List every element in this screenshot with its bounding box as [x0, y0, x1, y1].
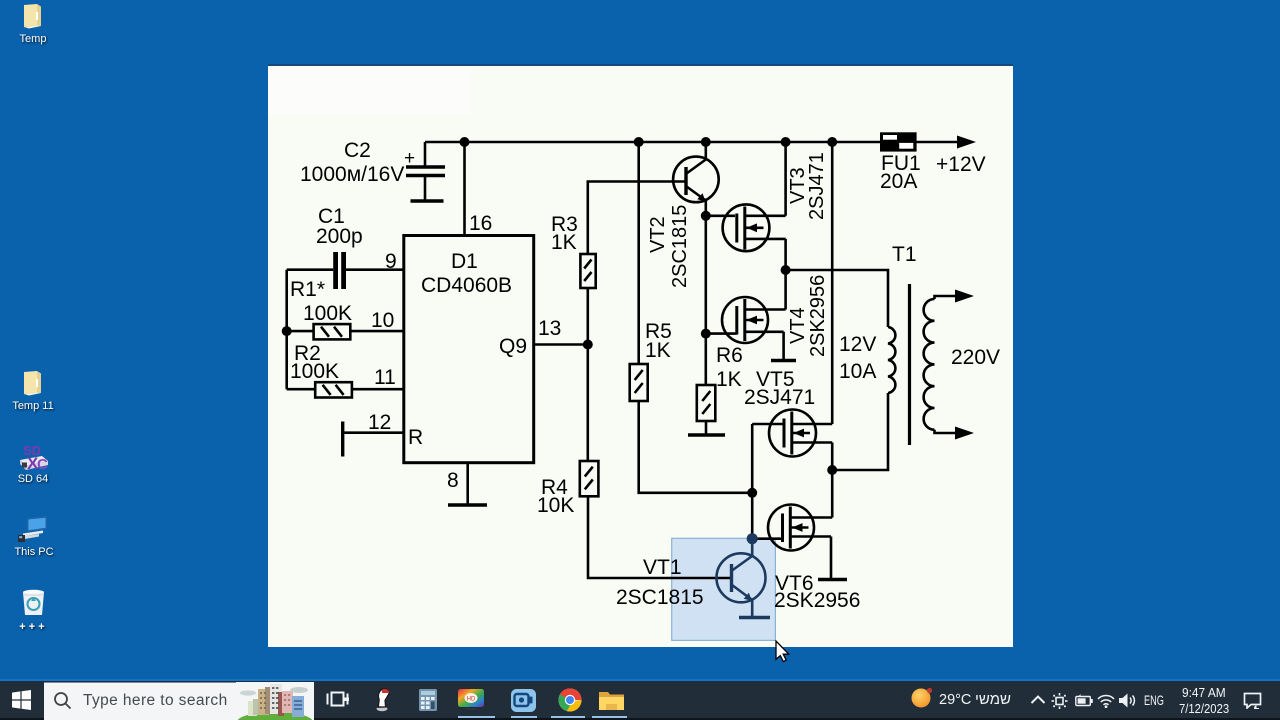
capacitor C1	[333, 252, 346, 289]
task view icon	[326, 689, 349, 711]
search box	[44, 682, 314, 720]
svg-text:D1: D1	[451, 250, 478, 273]
start button	[12, 690, 31, 710]
svg-text:T1: T1	[892, 243, 917, 266]
wire pin 9	[287, 268, 404, 271]
svg-text:VT2: VT2	[647, 216, 669, 253]
svg-text:8: 8	[447, 469, 459, 492]
wire VT2 emitter to VT3 gate	[706, 215, 735, 218]
arrowhead +12V	[957, 136, 976, 149]
resistor R2	[315, 382, 352, 397]
svg-text:R1*: R1*	[290, 278, 325, 301]
svg-text:13: 13	[538, 317, 561, 340]
svg-text:10A: 10A	[839, 360, 876, 383]
svg-text:1000м/16V: 1000м/16V	[300, 163, 404, 186]
svg-text:Q9: Q9	[499, 335, 527, 358]
wire VT5 gate vertical	[751, 424, 754, 539]
wire pin 12	[343, 431, 404, 434]
svg-text:200p: 200p	[316, 225, 363, 248]
fuse FU1	[880, 132, 917, 151]
svg-text:100K: 100K	[290, 360, 339, 383]
ground pin 8	[448, 503, 487, 506]
desktop icon Recycle Bin	[21, 589, 46, 616]
search box cityscape	[236, 682, 314, 720]
wire secondary top	[935, 296, 959, 299]
weather hebrew	[975, 691, 1011, 708]
svg-text:16: 16	[469, 212, 492, 235]
transistor VT4 2SK2956	[722, 270, 796, 361]
speaker icon	[1119, 693, 1139, 708]
svg-text:C: C	[37, 456, 48, 472]
svg-text:1K: 1K	[716, 368, 742, 391]
svg-text:2SJ471: 2SJ471	[806, 152, 828, 220]
svg-text:11: 11	[374, 366, 396, 389]
transistor VT2 2SC1815	[673, 142, 719, 216]
svg-text:1K: 1K	[645, 339, 671, 362]
desktop icon SD 64	[18, 440, 50, 472]
transistor VT6 2SK2956	[752, 470, 847, 580]
transistor VT1 2SC1815 (inside selection)	[717, 539, 771, 618]
wire secondary bottom	[935, 430, 959, 433]
clock	[1182, 685, 1226, 700]
electrode bar pin 12	[341, 422, 344, 457]
capacitor C2	[406, 142, 445, 201]
running app underlines	[458, 716, 496, 718]
selection rectangle (highlight)	[672, 538, 776, 640]
taskbar	[0, 679, 1280, 681]
svg-text:12V: 12V	[839, 333, 876, 356]
wire VT4 gate	[706, 332, 737, 335]
svg-text:HD: HD	[467, 696, 476, 702]
wire R4 branch	[588, 345, 732, 579]
weather sun	[911, 687, 933, 709]
calculator icon	[417, 689, 439, 711]
wire top +12V rail	[425, 141, 958, 144]
svg-text:+: +	[404, 148, 415, 169]
node dots	[460, 137, 470, 147]
wire rail to VT5 source	[831, 142, 834, 424]
svg-text:VT4: VT4	[787, 307, 809, 344]
svg-text:R: R	[408, 426, 423, 449]
desktop icon This PC	[17, 516, 49, 544]
svg-text:2SC1815: 2SC1815	[616, 586, 704, 609]
wire left vertical	[285, 270, 288, 390]
pointer/glove icon	[372, 687, 396, 712]
resistor R4	[580, 461, 599, 496]
media player icon	[458, 689, 485, 711]
folder icon taskbar	[598, 689, 625, 711]
transformer T1 primary coil	[888, 327, 895, 393]
wire pin 10	[287, 330, 404, 333]
desktop icon Temp	[23, 4, 42, 29]
action center icon	[1243, 692, 1262, 709]
blue recorder icon	[511, 689, 536, 712]
svg-text:10K: 10K	[537, 494, 574, 517]
mouse cursor	[774, 640, 790, 663]
svg-text:+12V: +12V	[936, 153, 986, 176]
svg-text:2SK2956: 2SK2956	[807, 275, 829, 357]
svg-text:C2: C2	[344, 139, 371, 162]
wire VT5 drain node to transformer primary bottom	[832, 393, 888, 470]
svg-text:1K: 1K	[551, 231, 577, 254]
svg-text:CD4060B: CD4060B	[421, 274, 512, 297]
svg-text:VT1: VT1	[643, 556, 682, 579]
wire R6 to ground	[705, 421, 708, 434]
svg-text:2SK2956: 2SK2956	[774, 589, 860, 612]
svg-text:2SC1815: 2SC1815	[669, 205, 691, 288]
ground R6	[688, 433, 725, 436]
battery icon	[1075, 694, 1093, 707]
resistor R1	[314, 324, 351, 339]
brightness icon	[1051, 693, 1068, 709]
resistor R6	[697, 385, 716, 421]
wire pin16 drop	[463, 142, 466, 236]
weather temp	[939, 692, 971, 708]
wire VT2 emitter down to R6	[704, 216, 707, 385]
ENG label	[1144, 693, 1164, 708]
transistor VT5 2SJ471	[752, 410, 832, 471]
wire pin 13 Q9	[534, 343, 588, 346]
IC D1 CD4060B box	[404, 236, 534, 463]
svg-text:100K: 100K	[303, 302, 352, 325]
svg-text:R6: R6	[716, 344, 743, 367]
wifi icon	[1097, 694, 1115, 708]
transformer core	[908, 284, 911, 445]
svg-text:12: 12	[368, 411, 391, 434]
wire R3 branch	[588, 182, 686, 345]
svg-text:9: 9	[385, 250, 397, 273]
svg-text:10: 10	[371, 309, 394, 332]
wire VT3 to rail and to node	[784, 142, 787, 270]
transformer T1 secondary coil	[924, 299, 935, 430]
svg-text:220V: 220V	[951, 346, 1000, 369]
desktop icon Temp 11	[23, 371, 42, 396]
wire R5 branch	[639, 142, 753, 493]
wire pin 11	[287, 388, 404, 391]
transistor VT3 2SJ471	[723, 204, 786, 251]
chevron up	[1030, 694, 1046, 705]
wire pin 8	[466, 463, 469, 504]
schematic white area	[268, 64, 1013, 647]
wire node to transformer primary top	[786, 270, 888, 327]
chrome icon	[558, 688, 582, 712]
svg-text:20A: 20A	[880, 170, 917, 193]
resistor R3	[580, 254, 595, 288]
svg-text:2SJ471: 2SJ471	[744, 386, 815, 409]
resistor R5	[630, 364, 648, 401]
